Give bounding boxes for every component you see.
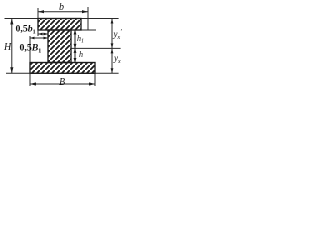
svg-text:0,5b1: 0,5b1 xyxy=(16,24,36,36)
svg-text:0,5B1: 0,5B1 xyxy=(20,43,42,55)
svg-text:h: h xyxy=(79,50,83,59)
svg-text:b: b xyxy=(59,2,64,13)
svg-text:H: H xyxy=(3,42,12,53)
svg-text:B: B xyxy=(59,77,65,88)
